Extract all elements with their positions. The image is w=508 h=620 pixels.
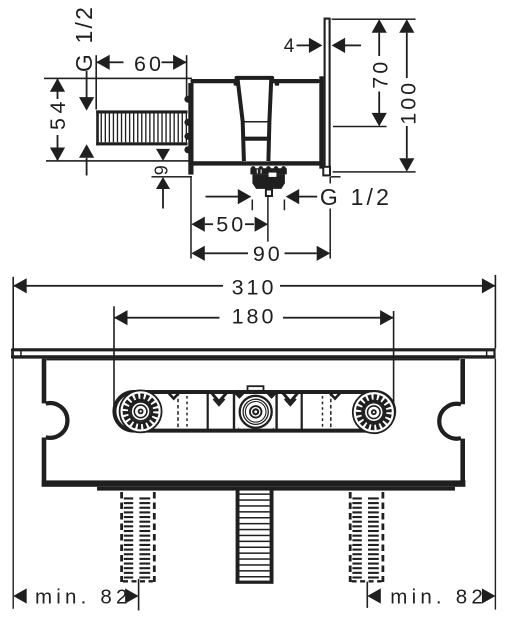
flange plate (310 wide) (11, 348, 496, 358)
svg-text:54: 54 (46, 97, 70, 130)
svg-text:4: 4 (284, 36, 295, 57)
dim 54 vertical (57, 79, 59, 99)
svg-text:310: 310 (232, 275, 277, 299)
box top edge (47, 359, 460, 361)
right knockout notch (439, 404, 461, 439)
svg-text:9: 9 (152, 165, 172, 175)
pipe: threaded supply pipe (96, 110, 187, 145)
plate foot (323, 167, 330, 176)
svg-text:180: 180 (232, 304, 277, 328)
left supply pipe (dashed) (122, 492, 155, 582)
dim 70 (372, 19, 387, 33)
svg-text:min. 82: min. 82 (35, 585, 132, 608)
dim min.82 left (13, 349, 14, 609)
svg-text:G 1/2: G 1/2 (71, 5, 97, 72)
wire: body-top extension line (44, 78, 192, 80)
dim 180 (113, 306, 115, 411)
box right wall (460, 359, 465, 486)
left port rosette (120, 390, 162, 432)
union nut on valve body left (184, 83, 193, 175)
wire: body-bottom extension line (46, 160, 192, 162)
dim 100 (399, 19, 414, 33)
wire: plate-top extension (332, 18, 416, 20)
svg-text:50: 50 (216, 213, 246, 237)
svg-text:min. 82: min. 82 (390, 585, 487, 608)
slot divider lines (178, 392, 331, 431)
escutcheon sleeve (319, 76, 323, 168)
outlet with G1/2 thread (250, 166, 286, 196)
handle lever tower (236, 76, 273, 161)
svg-text:60: 60 (134, 52, 164, 76)
dim 60 (95, 55, 97, 109)
wall plate (325, 19, 330, 173)
right supply pipe (dashed) (350, 492, 383, 582)
box bottom (42, 480, 466, 486)
svg-text:90: 90 (253, 242, 283, 266)
svg-text:70: 70 (368, 59, 392, 89)
dim min.82 right (367, 582, 369, 608)
wire: outlet centreline (267, 196, 269, 241)
dim 90 (190, 178, 192, 259)
right port rosette (353, 391, 395, 433)
centre pipe (threaded, solid) (236, 488, 274, 584)
box left wall (42, 359, 47, 486)
dim 9 (331, 176, 341, 178)
svg-text:G 1/2: G 1/2 (320, 184, 392, 210)
svg-text:100: 100 (397, 80, 421, 125)
dim 310 (12, 277, 14, 349)
wire: outlet edge stubs (252, 200, 254, 211)
valve body outline (191, 79, 320, 83)
mounting slot oblong (114, 392, 394, 431)
centre port housing (234, 386, 277, 431)
left knockout notch (46, 403, 68, 438)
dim G 1/2 (outlet) (206, 196, 239, 198)
chevron markers (168, 393, 340, 406)
dim 50 (191, 217, 205, 232)
centre port rings (238, 393, 273, 430)
